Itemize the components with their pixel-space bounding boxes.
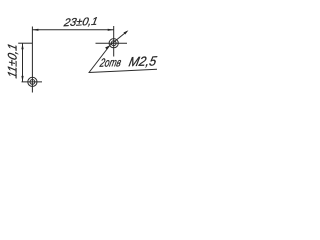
hole H1 outer circle <box>28 77 37 86</box>
leader line to hole 2 <box>89 46 109 73</box>
wire: hole 2 vertical centerline / extension line <box>113 26 115 57</box>
arrowhead right of dim 23 <box>108 29 114 31</box>
dimension line 23±0,1 <box>32 29 113 31</box>
leader continuation through hole 2 <box>110 31 127 45</box>
leader shelf under text <box>89 69 158 72</box>
svg-text:11±0,1: 11±0,1 <box>6 42 20 79</box>
arrowhead at leader continuation end <box>124 30 129 34</box>
svg-text:23±0,1: 23±0,1 <box>62 16 99 29</box>
extension tick for 11 dimension <box>18 42 32 44</box>
svg-text:2отв: 2отв <box>98 55 122 70</box>
hole H2 inner circle <box>111 41 116 46</box>
arrowhead bottom of dim 11 <box>21 76 23 82</box>
arrowhead top of dim 11 <box>21 43 23 49</box>
arrowhead left of dim 23 <box>32 29 38 31</box>
wire: hole 1 vertical centerline / extension line <box>31 27 33 93</box>
leader arrowhead at hole 2 edge <box>105 45 110 49</box>
svg-text:М2,5: М2,5 <box>127 54 158 70</box>
hole H2 outer circle <box>109 39 118 48</box>
dimension line 11±0,1 <box>22 43 24 82</box>
hole H1 inner circle <box>30 80 35 85</box>
wire: hole 2 horizontal centerline <box>96 42 128 44</box>
wire: hole 1 horizontal centerline <box>22 81 43 83</box>
